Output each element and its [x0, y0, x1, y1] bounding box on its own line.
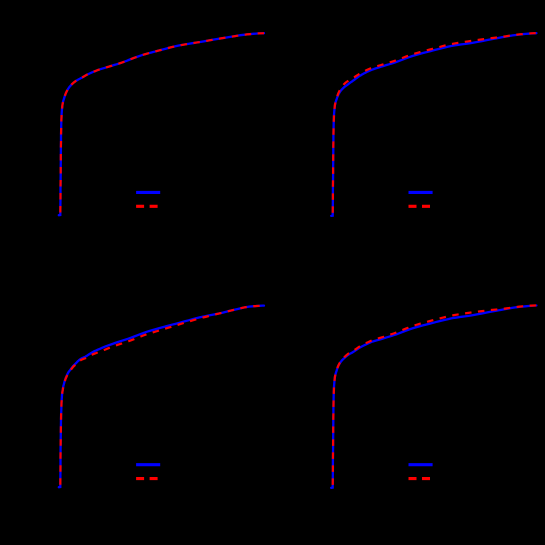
legend red dashed line TR [409, 205, 433, 208]
red dashed curve BR [331, 305, 536, 487]
subplot BL [59, 306, 264, 488]
red dashed curve TL [59, 33, 264, 215]
legend red dashed line BR [409, 477, 433, 480]
blue solid curve TR [331, 33, 536, 216]
blue solid curve BR [331, 306, 536, 488]
legend red dashed line TL [136, 205, 160, 208]
red dashed curve BL [59, 306, 264, 488]
subplot TR [331, 33, 536, 216]
subplot BR [331, 305, 536, 487]
blue solid curve BL [59, 306, 264, 488]
legend red dashed line BL [136, 477, 160, 480]
legend blue line BL [136, 463, 160, 466]
blue solid curve TL [59, 33, 264, 215]
legend blue line BR [409, 463, 433, 466]
legend blue line TL [136, 191, 160, 194]
legend blue line TR [409, 191, 433, 194]
subplot TL [59, 33, 264, 215]
red dashed curve TR [331, 33, 536, 215]
